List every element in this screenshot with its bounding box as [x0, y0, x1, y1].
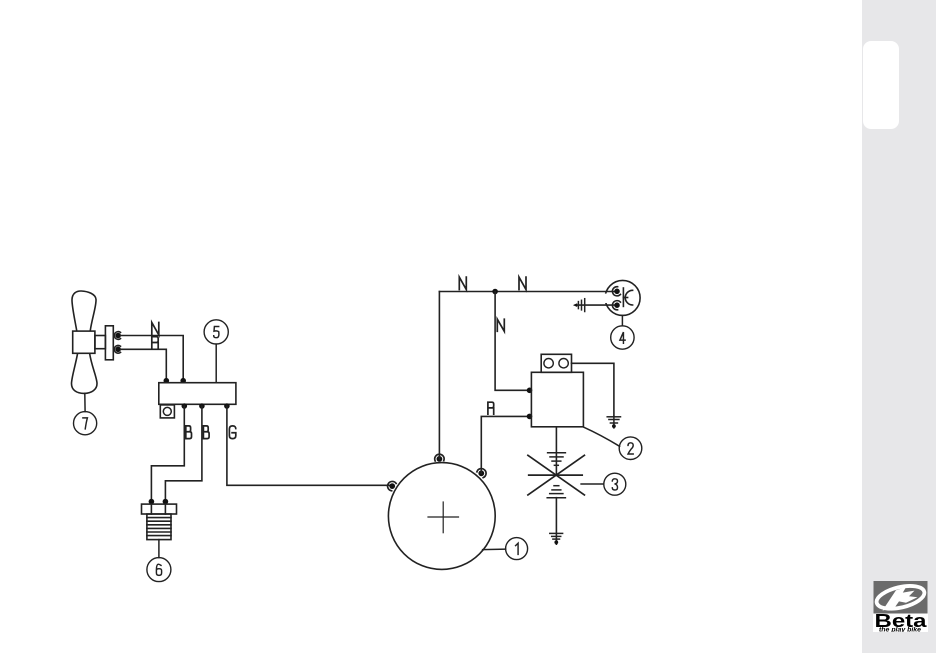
node B1 on regulator [182, 403, 188, 409]
wire B2 regulator to horn [165, 406, 202, 503]
generator terminal R (top right) [477, 469, 486, 478]
node N at CDI [527, 388, 533, 394]
label N (vertical wire) [497, 319, 504, 331]
wire spark plug to callout 3 [581, 483, 604, 485]
CDI unit 2 [531, 354, 583, 427]
fan connector pin N [114, 332, 121, 340]
generator terminal N (top) [435, 454, 444, 462]
callout 1 [506, 538, 528, 560]
callout 4 [611, 326, 634, 349]
label R (fan wire) [152, 337, 158, 349]
switch terminal ground [612, 301, 620, 310]
node R at CDI [527, 414, 533, 420]
label G (wire G) [229, 426, 235, 439]
label N (left of junction) [459, 277, 466, 289]
label N (fan wire) [152, 323, 159, 335]
white tab [863, 41, 899, 129]
wire R generator to CDI [481, 416, 528, 473]
wire N top horizontal to switch [439, 291, 616, 293]
label B (wire B2) [203, 426, 209, 439]
wire R fan to regulator [121, 349, 167, 382]
wire switch to callout 4 [621, 316, 623, 326]
generator 1 [388, 463, 495, 570]
wire regulator to callout 5 [215, 344, 217, 383]
callout 3 [604, 473, 626, 495]
label N (right of junction) [519, 277, 526, 289]
wire N junction down to CDI [495, 292, 528, 391]
callout 2 [619, 437, 642, 460]
node R at regulator [164, 378, 170, 384]
node at horn terminal 2 [163, 499, 169, 505]
Beta logo [873, 581, 928, 632]
generator terminal G (left) [388, 481, 397, 490]
sidebar strip [862, 0, 936, 653]
label B (wire B1) [186, 426, 192, 439]
wire CDI to callout 2 [584, 427, 620, 446]
switch terminal N [612, 287, 620, 296]
ignition switch 4 [603, 280, 640, 315]
wire switch to ground [576, 304, 615, 306]
label R (CDI wire) [488, 402, 494, 414]
wire generator to callout 1 [483, 548, 506, 550]
node N at regulator [180, 378, 186, 384]
svg-text:the play bike: the play bike [879, 627, 922, 632]
node N junction [492, 289, 498, 295]
callout 7 [74, 412, 97, 435]
wire N fan to regulator [121, 336, 183, 383]
horn 6 [142, 504, 177, 539]
callout 5 [204, 320, 228, 344]
wire CDI connector to ground [572, 363, 614, 416]
node at horn terminal 1 [149, 499, 155, 505]
wire N generator up [438, 292, 440, 459]
ground (switch) [573, 299, 585, 312]
regulator 5 [159, 383, 236, 418]
wire horn to callout 6 [158, 540, 160, 558]
ground (CDI) [607, 416, 620, 428]
wire B1 regulator to horn [151, 406, 184, 503]
node B2 on regulator [199, 403, 205, 409]
wire fan to callout 7 [84, 393, 86, 411]
wire G regulator to generator [227, 406, 391, 485]
node G on regulator [224, 403, 230, 409]
spark plug 3 [528, 453, 585, 545]
fan connector pin R [114, 345, 121, 353]
callout 6 [147, 558, 171, 582]
wire CDI to spark plug [555, 427, 557, 475]
fan motor 7 [71, 291, 113, 393]
